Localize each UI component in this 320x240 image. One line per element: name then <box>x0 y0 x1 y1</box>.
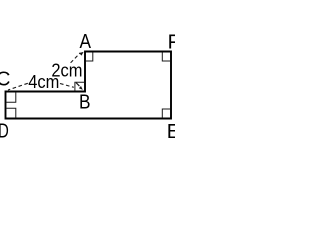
svg-text:B: B <box>79 92 91 114</box>
arrowhead of leader at corner B <box>79 86 83 90</box>
right-angle marker at B <box>75 82 84 91</box>
right-angle marker at F <box>162 52 170 61</box>
svg-text:C: C <box>0 69 10 91</box>
polygon outline A-F-E-D-C-B <box>6 52 172 119</box>
leader dash from 2cm inside right-angle square at B <box>76 83 79 86</box>
svg-text:4cm: 4cm <box>28 71 59 92</box>
right-angle marker at A <box>86 52 93 61</box>
arrowhead of 2cm leader at corner A <box>79 52 84 56</box>
leader dashed line from 4cm to corner B <box>60 84 74 88</box>
svg-text:F: F <box>168 32 175 54</box>
svg-text:A: A <box>80 31 92 53</box>
svg-text:D: D <box>0 121 9 143</box>
right-angle marker at E <box>162 109 170 118</box>
right-angle marker at D <box>6 108 16 118</box>
svg-text:E: E <box>167 121 175 143</box>
leader dashed line from 2cm to corner A <box>71 53 81 63</box>
right-angle marker at C <box>6 92 16 102</box>
leader dashed line from 4cm to corner C <box>8 83 28 90</box>
